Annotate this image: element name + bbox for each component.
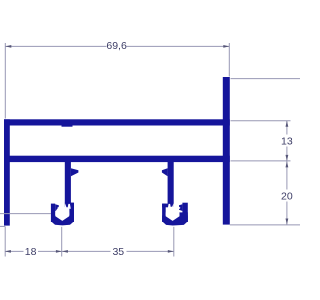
arrow 20 bottom [286, 219, 289, 225]
profile rib under top flange [62, 125, 73, 127]
dimension line 18 left part [5, 250, 24, 252]
hook channel 1 cup right wall [69, 203, 74, 222]
hook channel 2 screw cavity [166, 207, 180, 221]
arrow 18 right [56, 250, 62, 253]
hook channel 1 cup bottom [51, 216, 74, 226]
hook channel 1 stem tab [71, 168, 79, 176]
hook channel 1 stem [65, 162, 71, 205]
arrow 69,6 right [223, 45, 229, 48]
hook channel 2 cup bottom [162, 216, 188, 226]
svg-text:35: 35 [112, 246, 124, 258]
svg-text:18: 18 [25, 246, 37, 258]
hook channel 1 screw cavity [55, 207, 69, 221]
profile left wall [4, 119, 10, 225]
hook channel 1 stem slot flare [65, 203, 67, 208]
hook channel 2 cup tab [179, 204, 182, 211]
dimension line 18-35 middle part [38, 250, 111, 252]
hook channel 1 cup tab [55, 204, 59, 211]
arrow 35 left [62, 250, 68, 253]
arrow 69,6 left [5, 45, 11, 48]
hook channel 2 stem notch [168, 204, 171, 209]
extension line right wall top [231, 78, 301, 80]
hook channel 2 stem slot flare [172, 203, 174, 208]
extension line right of dim 69,6 [228, 43, 230, 77]
hook channel 1 cup left wall [51, 204, 55, 222]
dimension line 20 upper part [286, 161, 288, 190]
extension line hook 2 center [173, 227, 175, 257]
hook channel 2 cup lower thick wall [179, 212, 188, 222]
dimension line 13 upper part [286, 121, 288, 135]
hook channel 1 stem notch [67, 204, 70, 209]
dimension line 69,6 left part [5, 45, 106, 47]
profile bottom flange [4, 156, 230, 162]
hook channel 2 cup right wall [182, 203, 187, 222]
hook channel 2 cup left wall [162, 204, 166, 222]
hook channel 1 stem to right wall bridge [65, 203, 74, 208]
dimension line 20 lower part [286, 202, 288, 225]
hook channel 2 stem [168, 162, 174, 205]
extension line top flange right [231, 120, 291, 122]
extension line bottom flange right [231, 160, 291, 162]
dimension line 69,6 right part [127, 45, 230, 47]
reference line left cropped lower [0, 225, 5, 227]
svg-text:69,6: 69,6 [106, 40, 127, 52]
svg-text:20: 20 [281, 191, 293, 203]
profile right wall [223, 77, 230, 225]
arrow 35 right [168, 250, 174, 253]
arrow 18 left [5, 250, 11, 253]
profile top flange [4, 119, 230, 125]
arrow 20 top [286, 161, 289, 167]
svg-text:13: 13 [281, 135, 293, 147]
arrow 13 bottom [286, 155, 289, 161]
hook channel 2 stem to left wall bridge [162, 204, 174, 208]
hook channel 2 stem tab [162, 168, 168, 176]
arrow 13 top [286, 121, 289, 127]
extension line hook 1 center [61, 227, 63, 257]
dimension line 13 lower part [286, 147, 288, 161]
dimension line 35 right part [127, 250, 174, 252]
extension line left wall bottom dim [4, 227, 6, 257]
extension line left of dim 69,6 [4, 43, 6, 119]
extension line right wall bottom [230, 224, 300, 226]
reference line left cropped [0, 213, 51, 215]
hook channel 2 tab notch [179, 207, 181, 210]
hook channel 1 tab notch [57, 207, 59, 210]
